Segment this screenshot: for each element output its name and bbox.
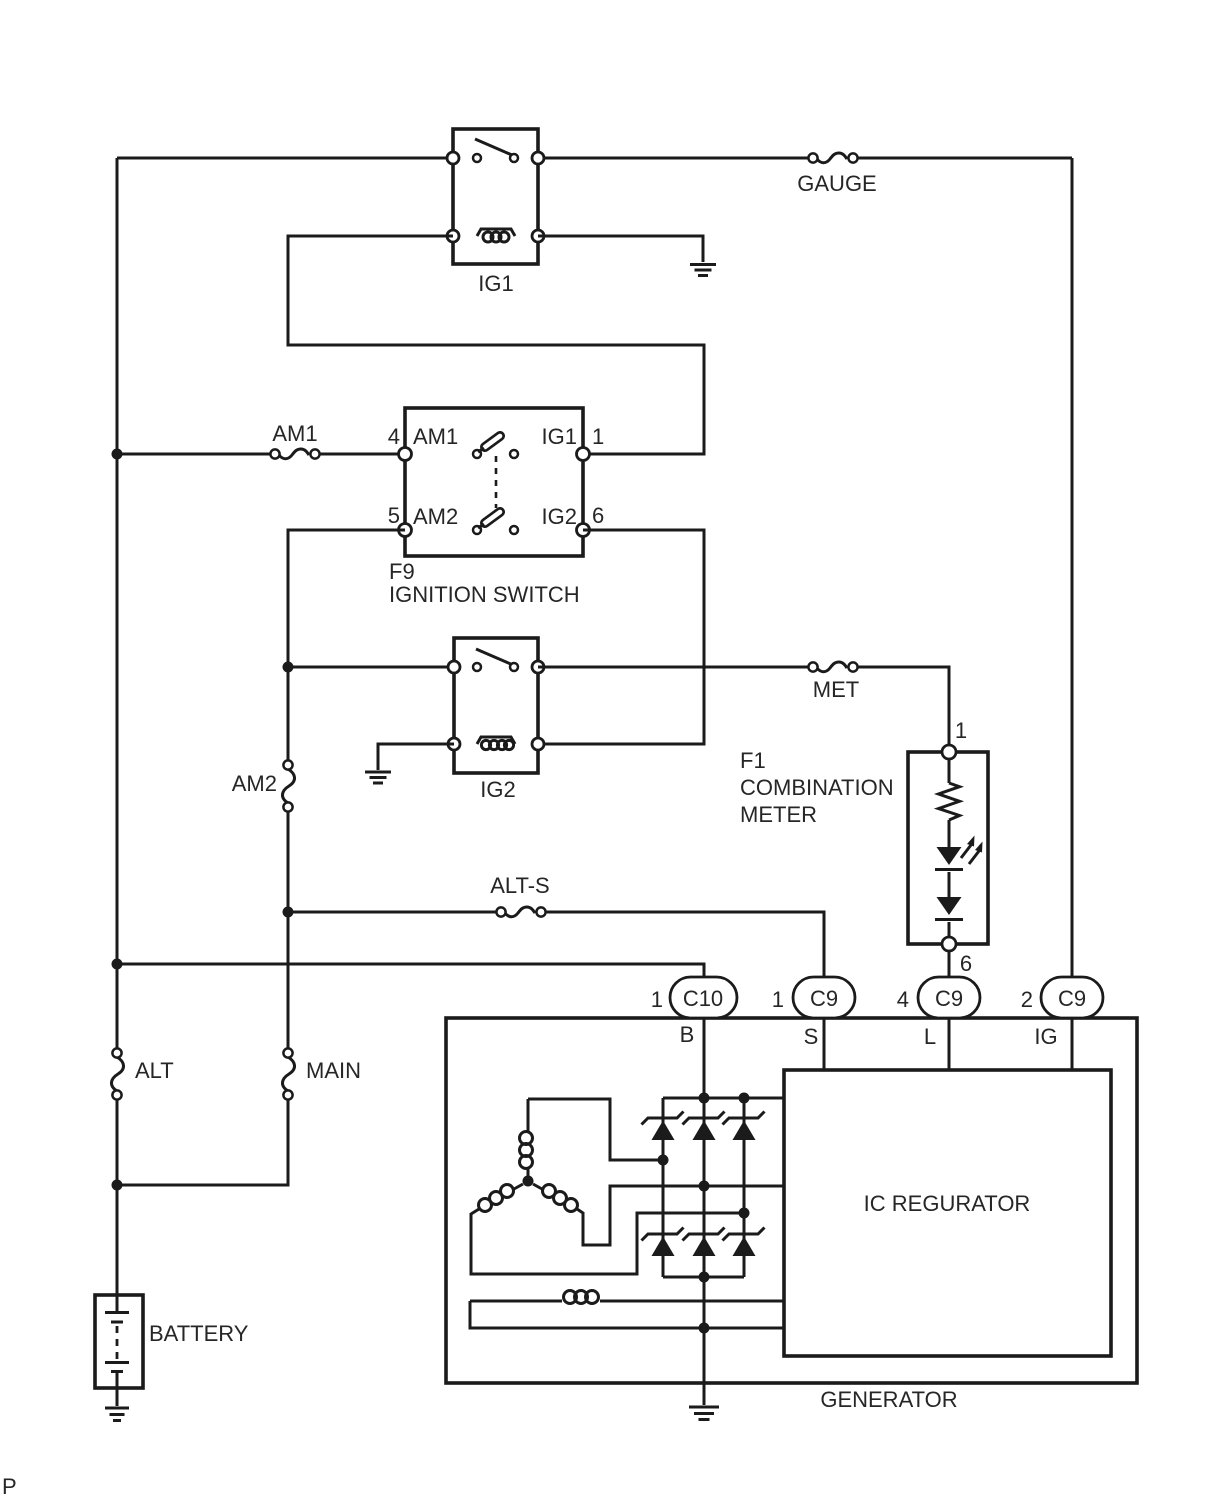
fusible link ALT [111, 1048, 173, 1099]
wire right rail (GAUGE to IG connector) [1071, 158, 1074, 977]
wire MET fuse to combination meter terminal 1 [858, 667, 949, 745]
ground (IG2 relay coil) [365, 772, 391, 783]
node bus / column 3 [739, 1093, 750, 1104]
svg-text:C10: C10 [683, 986, 723, 1011]
svg-text:P: P [2, 1474, 17, 1498]
svg-text:BATTERY: BATTERY [149, 1321, 249, 1346]
svg-text:IG: IG [1034, 1024, 1057, 1049]
svg-text:IC REGURATOR: IC REGURATOR [864, 1191, 1031, 1216]
wire IG1 coil right to ground [538, 236, 703, 262]
diode D5 (rectifier upper, column 3) [723, 1112, 765, 1141]
diode D2 [935, 897, 963, 920]
svg-text:S: S [804, 1024, 819, 1049]
svg-text:L: L [924, 1024, 936, 1049]
node stator star point [523, 1176, 534, 1187]
combination meter F1 (charge warning lamp) [740, 718, 988, 976]
wire phase C to IC regulator [583, 1186, 784, 1245]
wire connector IG to IC regulator [1071, 1018, 1074, 1070]
svg-text:ALT: ALT [135, 1058, 174, 1083]
svg-text:1: 1 [955, 718, 967, 743]
wire phase A to rectifier column 1 [528, 1099, 663, 1160]
node AM2 branch / IG2 relay tap [283, 662, 294, 673]
ground (IG1 relay coil) [690, 265, 716, 276]
svg-text:F1: F1 [740, 748, 766, 773]
node battery rail / AM1 tap [112, 449, 123, 460]
wire phase B to rectifier column 3 [471, 1213, 744, 1274]
svg-text:IG2: IG2 [542, 504, 577, 529]
relay IG1 [447, 129, 544, 296]
wire rectifier column 1 [662, 1098, 665, 1277]
wire column 2 to generator ground [703, 1383, 706, 1405]
svg-text:1: 1 [651, 987, 663, 1012]
svg-text:C9: C9 [1058, 986, 1086, 1011]
wire rectifier negative bus [663, 1276, 744, 1279]
svg-text:AM2: AM2 [413, 504, 458, 529]
wire AM2 branch to AM2 fusible link [287, 667, 290, 760]
wire GAUGE fuse to right rail [858, 157, 1072, 160]
svg-text:4: 4 [388, 424, 400, 449]
wire battery rail (top section) [116, 158, 119, 1049]
fuse ALT-S [490, 873, 550, 917]
svg-text:ALT-S: ALT-S [490, 873, 550, 898]
wire ALT-S tap to MAIN fusible link [287, 912, 290, 1049]
svg-text:MAIN: MAIN [306, 1058, 361, 1083]
node phase A / column 1 [658, 1155, 669, 1166]
svg-text:1: 1 [592, 424, 604, 449]
diode D3 (rectifier upper, column 1) [642, 1112, 684, 1141]
svg-text:AM1: AM1 [413, 424, 458, 449]
LED charge lamp D1 [935, 836, 983, 870]
rotor field coil L4 [470, 1291, 784, 1304]
svg-text:AM1: AM1 [272, 421, 317, 446]
wire battery rail to connector C10 B [117, 964, 704, 977]
diode D7 (rectifier lower, column 2) [683, 1228, 725, 1257]
svg-text:F9: F9 [389, 559, 415, 584]
fuse AM1 [270, 421, 319, 459]
svg-text:2: 2 [1021, 987, 1033, 1012]
resistor (charge lamp series resistor) [939, 783, 960, 820]
svg-text:IGNITION SWITCH: IGNITION SWITCH [389, 582, 580, 607]
node negative bus / column 2 [699, 1272, 710, 1283]
wire meter terminal 6 to connector C9 L [948, 951, 951, 977]
wire connector L to IC regulator [948, 1018, 951, 1070]
ground (battery negative) [105, 1408, 129, 1421]
svg-text:4: 4 [897, 987, 909, 1012]
ignition switch F9 [388, 408, 605, 607]
fuse GAUGE [797, 153, 876, 196]
stator winding L2 (phase B coil) [471, 1184, 523, 1214]
svg-text:IG1: IG1 [542, 424, 577, 449]
connector C9 pin 1 (S) [772, 977, 855, 1049]
wire AM1 fuse to ignition switch terminal 4 [320, 453, 405, 456]
node battery rail / B wire tap [112, 959, 123, 970]
wire AM2 branch to IG2 relay switch [288, 666, 454, 669]
wire IG2 relay coil left to ground [378, 744, 454, 770]
wire battery rail (lower section) to battery [116, 1099, 119, 1295]
svg-text:GENERATOR: GENERATOR [820, 1387, 957, 1412]
node phase B / column 3 [739, 1208, 750, 1219]
wire IG1 coil left to ignition switch terminal 1 [288, 236, 704, 454]
node battery rail / MAIN branch [112, 1180, 123, 1191]
connector C9 pin 2 (IG) [1021, 977, 1103, 1049]
wire connector S to IC regulator [823, 1018, 826, 1070]
fuse MET [808, 662, 859, 702]
node ALT-S tap [283, 907, 294, 918]
svg-text:C9: C9 [810, 986, 838, 1011]
svg-text:5: 5 [388, 503, 400, 528]
node phase C / column 2 [699, 1181, 710, 1192]
node bus / column 2 [699, 1093, 710, 1104]
IC regulator U1 [784, 1070, 1111, 1356]
wire MAIN fusible link to battery rail [117, 1099, 288, 1185]
diode D6 (rectifier lower, column 1) [642, 1228, 684, 1257]
svg-text:GAUGE: GAUGE [797, 171, 876, 196]
connector C9 pin 4 (L) [897, 977, 980, 1049]
svg-text:AM2: AM2 [232, 771, 277, 796]
wire rectifier column 3 [743, 1098, 746, 1277]
svg-text:1: 1 [772, 987, 784, 1012]
svg-text:METER: METER [740, 802, 817, 827]
fusible link AM2 [232, 760, 295, 811]
battery [95, 1295, 249, 1406]
diode D8 (rectifier lower, column 3) [723, 1228, 765, 1257]
fusible link MAIN [282, 1048, 361, 1099]
svg-text:C9: C9 [935, 986, 963, 1011]
wire ALT-S tap to ALT-S fuse [288, 911, 496, 914]
diode D4 (rectifier upper, column 2) [683, 1112, 725, 1141]
wire IG1 relay to GAUGE fuse [538, 157, 808, 160]
wire ignition switch terminal 6 to IG2 relay coil [538, 530, 704, 744]
stator winding L3 (phase C coil) [533, 1184, 583, 1213]
wire AM2 fusible link to ALT-S tap [287, 811, 290, 912]
svg-text:6: 6 [592, 503, 604, 528]
svg-text:COMBINATION: COMBINATION [740, 775, 894, 800]
svg-text:MET: MET [813, 677, 859, 702]
svg-text:6: 6 [960, 951, 972, 976]
stator winding L1 (phase A coil) [520, 1099, 533, 1177]
wire field coil return to IC regulator [470, 1301, 784, 1328]
svg-text:IG2: IG2 [480, 777, 515, 802]
wire ignition switch terminal 5 to AM2 branch [288, 530, 405, 667]
relay IG2 [448, 638, 544, 802]
wire ALT-S fuse to connector C9 S [546, 912, 824, 977]
generator box [446, 1018, 1137, 1412]
connector C10 pin 1 (B) [651, 977, 737, 1047]
ground (generator frame) [689, 1407, 719, 1420]
wire rectifier positive bus [663, 1097, 784, 1100]
wire battery rail to IG1 relay (top feed) [117, 157, 453, 160]
wire connector B into rectifier (column 2) [703, 1018, 706, 1383]
wire AM1 feed from battery rail [117, 453, 271, 456]
node field return / ground column [699, 1323, 710, 1334]
svg-text:B: B [680, 1022, 695, 1047]
svg-text:IG1: IG1 [478, 271, 513, 296]
wire IG2 relay switch to MET fuse [538, 666, 808, 669]
